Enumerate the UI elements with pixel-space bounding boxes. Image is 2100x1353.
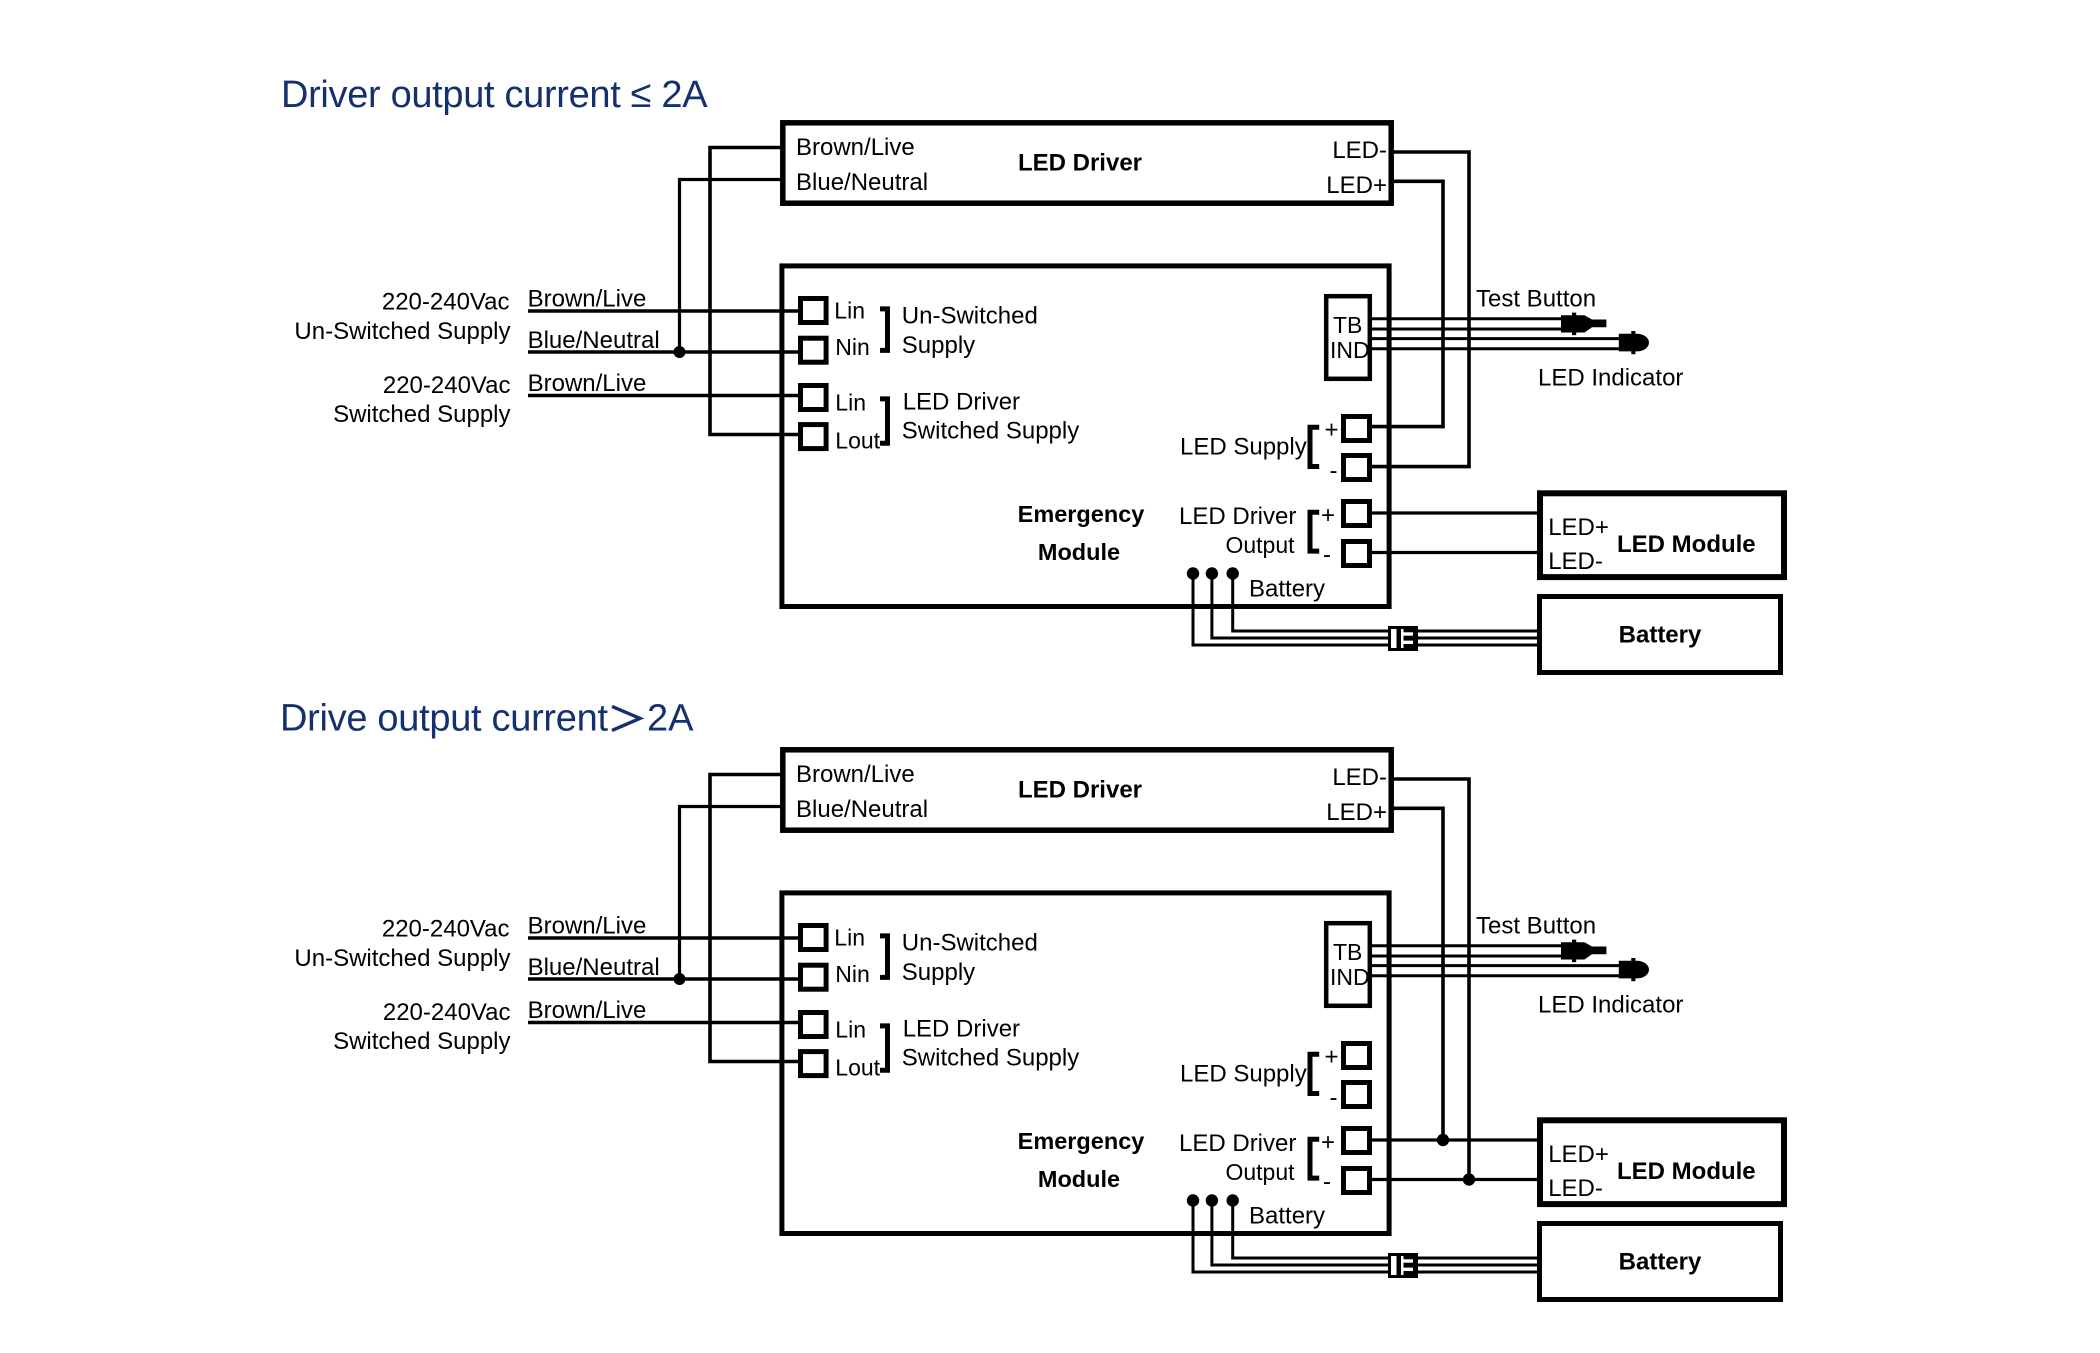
terminal Lout41 square — [801, 425, 827, 449]
LED indicator D2 icon — [1619, 958, 1649, 981]
svg-text:Brown/Live: Brown/Live — [528, 286, 647, 313]
battery wire 1 to connector — [1193, 1201, 1389, 1273]
wire output + to LED module — [1372, 511, 1540, 514]
svg-text:LED-: LED- — [1548, 1175, 1603, 1202]
wire switched Brown/Live to Lin — [528, 1021, 798, 1024]
svg-text:Lout: Lout — [835, 1055, 880, 1081]
wire output - to LED module — [1372, 551, 1540, 554]
terminal LED Supply - square — [1344, 1083, 1370, 1107]
terminal Nin21 square — [801, 338, 827, 362]
svg-text:LED Module: LED Module — [1617, 1158, 1756, 1185]
svg-text:+: + — [1324, 1044, 1338, 1071]
svg-text:LED+: LED+ — [1326, 172, 1387, 199]
svg-text:Blue/Neutral: Blue/Neutral — [796, 796, 928, 823]
svg-text:LED-: LED- — [1332, 764, 1387, 791]
LED indicator D1 icon — [1619, 331, 1649, 354]
svg-text:Blue/Neutral: Blue/Neutral — [528, 954, 660, 981]
svg-text:Nin: Nin — [835, 961, 870, 987]
svg-text:Test Button: Test Button — [1476, 913, 1596, 940]
svg-text:Lin: Lin — [834, 925, 865, 951]
svg-text:Test Button: Test Button — [1476, 286, 1596, 313]
svg-text:+: + — [1324, 417, 1338, 444]
battery wire 2 connector to battery — [1418, 1264, 1540, 1267]
wire Blue/Neutral junction to LED Driver — [680, 807, 784, 980]
bracket LED driver switched supply group — [880, 399, 888, 443]
bracket LED driver output group — [1310, 1139, 1319, 1178]
svg-text:Switched Supply: Switched Supply — [333, 401, 510, 428]
svg-text:LED Supply: LED Supply — [1180, 433, 1307, 460]
svg-text:Un-Switched Supply: Un-Switched Supply — [294, 945, 510, 972]
wire Blue/Neutral junction to LED Driver — [680, 180, 784, 353]
svg-text:Brown/Live: Brown/Live — [528, 997, 647, 1024]
battery wire 1 connector to battery — [1418, 1271, 1540, 1274]
svg-text:-: - — [1330, 1085, 1338, 1112]
wire LED- down to LED driver output minus — [1391, 779, 1469, 1180]
svg-text:Un-Switched: Un-Switched — [902, 303, 1038, 330]
svg-text:-: - — [1323, 1169, 1331, 1196]
svg-text:Module: Module — [1038, 1166, 1120, 1192]
junction dot LED- on output minus wire — [1463, 1173, 1475, 1185]
battery wire 1 to connector — [1193, 574, 1389, 646]
svg-text:Battery: Battery — [1249, 1203, 1325, 1230]
wire LED+ down to LED driver output plus — [1391, 808, 1443, 1140]
wire IND 2 to LED indicator — [1372, 974, 1619, 977]
svg-text:Lin: Lin — [835, 1017, 866, 1043]
terminal Lout42 square — [801, 1052, 827, 1076]
svg-text:LED-: LED- — [1548, 548, 1603, 575]
svg-text:LED Indicator: LED Indicator — [1538, 365, 1683, 392]
battery wire 3 connector to battery — [1418, 630, 1540, 633]
svg-text:Driver output current ≤ 2A: Driver output current ≤ 2A — [281, 74, 708, 116]
svg-text:Brown/Live: Brown/Live — [528, 913, 647, 940]
LED Module box — [1540, 493, 1784, 577]
svg-text:Switched Supply: Switched Supply — [902, 417, 1079, 444]
svg-text:LED Driver: LED Driver — [903, 1015, 1020, 1042]
battery wire 3 to connector — [1233, 574, 1389, 632]
terminal LED driver output + square — [1344, 1129, 1370, 1153]
Battery BT2 box — [1540, 1224, 1781, 1300]
LED Driver U11 box — [783, 123, 1391, 203]
svg-text:LED Driver: LED Driver — [1179, 1130, 1296, 1157]
svg-text:IND: IND — [1330, 964, 1370, 990]
bracket LED supply group — [1310, 1054, 1319, 1093]
wire Lout to LED Driver Brown/Live — [710, 775, 798, 1062]
battery terminal dot 2 — [1206, 567, 1218, 579]
bracket LED driver output group — [1310, 512, 1319, 551]
wire output - to LED module — [1372, 1178, 1540, 1181]
svg-text:LED Driver: LED Driver — [903, 388, 1020, 415]
battery terminal dot 1 — [1187, 567, 1199, 579]
terminal Lin11 square — [801, 299, 827, 323]
battery wire 3 to connector — [1233, 1201, 1389, 1259]
wire IND 1 to LED indicator — [1372, 964, 1619, 967]
Emergency Module U22 box — [782, 893, 1389, 1234]
svg-text:Blue/Neutral: Blue/Neutral — [528, 327, 660, 354]
test button SW1 icon — [1561, 313, 1606, 336]
junction dot on Blue/Neutral — [674, 346, 686, 358]
TB/IND terminal box — [1326, 296, 1370, 379]
test button SW2 icon — [1561, 940, 1606, 963]
svg-text:Module: Module — [1038, 539, 1120, 565]
bracket un-switched supply group — [880, 936, 888, 978]
svg-text:Brown/Live: Brown/Live — [796, 761, 915, 788]
LED Driver U12 box — [783, 750, 1391, 830]
battery wire 2 connector to battery — [1418, 637, 1540, 640]
wire un-switched Brown/Live to Lin — [528, 936, 798, 939]
svg-text:Nin: Nin — [835, 334, 870, 360]
svg-text:Emergency: Emergency — [1018, 501, 1145, 527]
svg-text:Lin: Lin — [835, 390, 866, 416]
svg-text:IND: IND — [1330, 337, 1370, 363]
svg-text:TB: TB — [1333, 939, 1362, 965]
svg-text:Output: Output — [1225, 1159, 1295, 1185]
bracket LED supply group — [1310, 427, 1319, 466]
terminal Lin12 square — [801, 926, 827, 950]
svg-text:220-240Vac: 220-240Vac — [383, 372, 511, 399]
Battery BT1 box — [1540, 597, 1781, 673]
title: Drive output current > 2A — [280, 697, 694, 739]
battery wire 3 connector to battery — [1418, 1257, 1540, 1260]
wire IND 1 to LED indicator — [1372, 337, 1619, 340]
battery terminal dot 2 — [1206, 1194, 1218, 1206]
svg-text:Blue/Neutral: Blue/Neutral — [796, 169, 928, 196]
terminal LED driver output - square — [1344, 1169, 1370, 1193]
svg-text:-: - — [1323, 542, 1331, 569]
terminal LED driver output - square — [1344, 542, 1370, 566]
svg-text:LED Supply: LED Supply — [1180, 1060, 1307, 1087]
svg-text:220-240Vac: 220-240Vac — [382, 916, 510, 943]
svg-text:Supply: Supply — [902, 332, 975, 359]
svg-text:+: + — [1321, 1129, 1335, 1156]
wire TB 1 to test button — [1372, 317, 1561, 320]
svg-text:2A: 2A — [647, 697, 694, 739]
battery wire 2 to connector — [1212, 1201, 1389, 1266]
svg-text:LED Module: LED Module — [1617, 531, 1756, 558]
bracket un-switched supply group — [880, 309, 888, 351]
svg-text:Battery: Battery — [1619, 1249, 1702, 1276]
battery connector J1 icon — [1390, 627, 1419, 651]
svg-text:Battery: Battery — [1619, 622, 1702, 649]
svg-text:Switched Supply: Switched Supply — [902, 1044, 1079, 1071]
svg-text:220-240Vac: 220-240Vac — [383, 999, 511, 1026]
TB/IND terminal box — [1326, 923, 1370, 1006]
terminal LED Supply + square — [1344, 1044, 1370, 1068]
svg-text:Un-Switched Supply: Un-Switched Supply — [294, 318, 510, 345]
Emergency Module U21 box — [782, 266, 1389, 607]
battery terminal dot 1 — [1187, 1194, 1199, 1206]
wire LED+ to LED Supply plus — [1372, 181, 1443, 426]
battery wire 2 to connector — [1212, 574, 1389, 639]
wire TB 2 to test button — [1372, 955, 1561, 958]
wire IND 2 to LED indicator — [1372, 347, 1619, 350]
svg-text:LED Driver: LED Driver — [1179, 503, 1296, 530]
battery wire 1 connector to battery — [1418, 644, 1540, 647]
wire un-switched Brown/Live to Lin — [528, 309, 798, 312]
terminal LED Supply - square — [1344, 456, 1370, 480]
svg-text:Lin: Lin — [834, 298, 865, 324]
svg-text:+: + — [1321, 502, 1335, 529]
wire TB 1 to test button — [1372, 944, 1561, 947]
svg-text:LED+: LED+ — [1548, 1141, 1609, 1168]
LED Module box — [1540, 1120, 1784, 1204]
svg-text:Emergency: Emergency — [1018, 1128, 1145, 1154]
svg-text:Output: Output — [1225, 532, 1295, 558]
svg-text:TB: TB — [1333, 312, 1362, 338]
wire TB 2 to test button — [1372, 328, 1561, 331]
wire switched Brown/Live to Lin — [528, 394, 798, 397]
svg-text:LED+: LED+ — [1326, 799, 1387, 826]
svg-text:220-240Vac: 220-240Vac — [382, 289, 510, 316]
battery terminal dot 3 — [1227, 1194, 1239, 1206]
terminal Lin32 square — [801, 1013, 827, 1037]
svg-text:Brown/Live: Brown/Live — [796, 134, 915, 161]
battery connector J2 icon — [1390, 1254, 1419, 1278]
svg-text:LED-: LED- — [1332, 137, 1387, 164]
wire Lout to LED Driver Brown/Live — [710, 148, 798, 435]
svg-text:Switched Supply: Switched Supply — [333, 1028, 510, 1055]
terminal LED driver output + square — [1344, 502, 1370, 526]
svg-text:Brown/Live: Brown/Live — [528, 370, 647, 397]
svg-text:Un-Switched: Un-Switched — [902, 930, 1038, 957]
junction dot on Blue/Neutral — [674, 973, 686, 985]
wire LED- to LED Supply minus — [1372, 152, 1469, 467]
svg-text:Drive output current: Drive output current — [280, 697, 608, 739]
wire un-switched Blue/Neutral to Nin — [528, 977, 798, 980]
svg-text:LED Driver: LED Driver — [1018, 776, 1142, 803]
terminal LED Supply + square — [1344, 417, 1370, 441]
svg-text:LED Indicator: LED Indicator — [1538, 992, 1683, 1019]
battery terminal dot 3 — [1227, 567, 1239, 579]
svg-text:LED Driver: LED Driver — [1018, 149, 1142, 176]
svg-text:Battery: Battery — [1249, 576, 1325, 603]
svg-text:Lout: Lout — [835, 428, 880, 454]
svg-text:-: - — [1330, 458, 1338, 485]
bracket LED driver switched supply group — [880, 1026, 888, 1070]
wire un-switched Blue/Neutral to Nin — [528, 350, 798, 353]
svg-text:Supply: Supply — [902, 959, 975, 986]
junction dot LED+ on output plus wire — [1437, 1134, 1449, 1146]
svg-text:LED+: LED+ — [1548, 514, 1609, 541]
wire output + to LED module — [1372, 1138, 1540, 1141]
terminal Lin31 square — [801, 386, 827, 410]
terminal Nin22 square — [801, 965, 827, 989]
